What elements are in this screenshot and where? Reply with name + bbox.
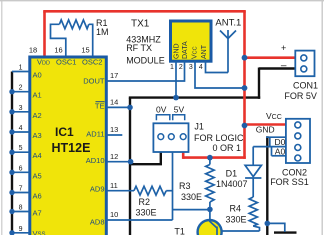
svg-text:RF TX: RF TX bbox=[126, 43, 152, 53]
svg-text:HT12E: HT12E bbox=[52, 141, 91, 155]
svg-text:330E: 330E bbox=[181, 192, 202, 202]
svg-text:AD8: AD8 bbox=[90, 218, 105, 227]
svg-text:6: 6 bbox=[19, 165, 23, 172]
svg-text:CON1: CON1 bbox=[293, 80, 318, 90]
svg-text:ANT.1: ANT.1 bbox=[215, 17, 241, 28]
svg-text:R3: R3 bbox=[179, 181, 191, 191]
svg-text:A7: A7 bbox=[33, 209, 42, 218]
svg-text:D1: D1 bbox=[226, 169, 238, 179]
svg-text:10: 10 bbox=[110, 210, 118, 219]
svg-text:ANT: ANT bbox=[201, 44, 208, 59]
svg-text:GND: GND bbox=[256, 125, 275, 135]
svg-text:AD10: AD10 bbox=[86, 156, 105, 165]
svg-text:4: 4 bbox=[19, 125, 23, 132]
svg-text:A0: A0 bbox=[33, 71, 42, 80]
svg-text:3: 3 bbox=[19, 105, 23, 112]
svg-text:TE: TE bbox=[95, 101, 105, 110]
svg-text:OSC1: OSC1 bbox=[56, 58, 76, 67]
svg-text:AD11: AD11 bbox=[86, 130, 104, 139]
svg-text:2: 2 bbox=[19, 85, 23, 92]
svg-text:2: 2 bbox=[179, 64, 183, 71]
svg-text:A5: A5 bbox=[33, 171, 42, 180]
svg-text:11: 11 bbox=[110, 181, 118, 190]
svg-text:9: 9 bbox=[19, 226, 23, 233]
svg-text:IC1: IC1 bbox=[55, 125, 74, 139]
svg-text:A0: A0 bbox=[275, 146, 286, 156]
svg-text:0 OR 1: 0 OR 1 bbox=[212, 143, 241, 153]
svg-text:1N4007: 1N4007 bbox=[216, 179, 248, 189]
svg-text:GND: GND bbox=[174, 43, 181, 59]
svg-text:A3: A3 bbox=[33, 131, 42, 140]
svg-text:3: 3 bbox=[189, 64, 193, 71]
svg-text:R2: R2 bbox=[139, 197, 151, 207]
svg-text:4: 4 bbox=[199, 64, 203, 71]
svg-text:A1: A1 bbox=[33, 91, 42, 100]
svg-text:A4: A4 bbox=[33, 151, 42, 160]
svg-text:AD9: AD9 bbox=[90, 185, 105, 194]
svg-text:A6: A6 bbox=[33, 192, 42, 201]
svg-text:VCC: VCC bbox=[192, 46, 199, 59]
svg-text:–: – bbox=[281, 60, 287, 71]
svg-text:FOR 5V: FOR 5V bbox=[284, 91, 317, 101]
svg-text:16: 16 bbox=[54, 46, 62, 55]
svg-text:DOUT: DOUT bbox=[83, 76, 105, 85]
svg-text:A2: A2 bbox=[33, 111, 42, 120]
svg-text:R4: R4 bbox=[230, 203, 242, 213]
svg-text:7: 7 bbox=[19, 186, 23, 193]
svg-text:17: 17 bbox=[110, 71, 118, 80]
svg-text:18: 18 bbox=[29, 46, 37, 55]
svg-text:1: 1 bbox=[19, 65, 23, 72]
svg-text:330E: 330E bbox=[226, 214, 247, 224]
svg-text:OSC2: OSC2 bbox=[82, 58, 102, 67]
svg-text:1M: 1M bbox=[96, 27, 109, 37]
svg-text:330E: 330E bbox=[136, 208, 157, 218]
svg-text:13: 13 bbox=[110, 125, 118, 134]
svg-text:+: + bbox=[281, 43, 286, 53]
svg-text:FOR SS1: FOR SS1 bbox=[270, 177, 309, 187]
svg-text:CON2: CON2 bbox=[282, 167, 307, 177]
svg-text:VCC: VCC bbox=[266, 111, 282, 121]
svg-text:TX1: TX1 bbox=[131, 18, 150, 29]
svg-text:MODULE: MODULE bbox=[126, 56, 165, 66]
svg-text:5: 5 bbox=[19, 145, 23, 152]
svg-text:15: 15 bbox=[81, 46, 89, 55]
svg-text:J1: J1 bbox=[194, 122, 204, 132]
svg-text:5V: 5V bbox=[174, 105, 185, 115]
svg-text:DATA: DATA bbox=[182, 41, 189, 59]
svg-text:0V: 0V bbox=[156, 105, 167, 115]
svg-text:14: 14 bbox=[110, 98, 118, 107]
svg-text:8: 8 bbox=[19, 205, 23, 212]
svg-text:T1: T1 bbox=[174, 227, 185, 236]
svg-text:1: 1 bbox=[170, 64, 174, 71]
svg-text:FOR LOGIC: FOR LOGIC bbox=[194, 133, 244, 143]
svg-text:12: 12 bbox=[110, 152, 118, 161]
